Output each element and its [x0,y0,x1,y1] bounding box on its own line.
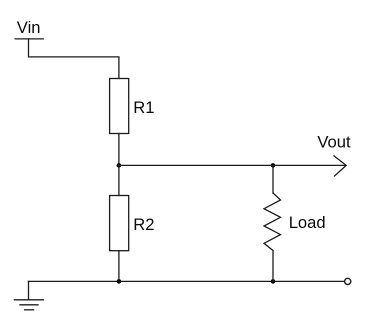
junction Load top [271,163,276,168]
wire Load top lead [272,165,274,193]
svg-text:R2: R2 [133,215,154,234]
wire mid node to Load top [119,164,273,166]
svg-text:R1: R1 [133,98,154,117]
junction R2 bottom [117,279,122,284]
arrow Vout [334,156,346,176]
wire mid node to R2 top [118,165,120,195]
junction Load bottom [271,279,276,284]
terminal open circle [345,278,351,284]
ground [14,300,43,310]
wire R1 bottom to mid node [118,134,120,166]
svg-text:Load: Load [289,213,326,232]
node Vout label [317,133,351,152]
wire ground rail [29,280,345,282]
label Load [289,213,326,232]
terminal Vin [15,38,43,40]
label R1 [133,98,154,117]
wire ground rail to ground symbol [28,281,30,299]
node Vin label [17,18,41,37]
svg-text:Vout: Vout [317,133,351,152]
wire Load bottom lead [272,251,274,282]
wire Vin to R1 top [29,39,119,79]
resistor Load [264,193,281,251]
resistor R2 [110,196,129,251]
wire R2 bottom to ground rail [118,251,120,282]
junction mid node left [117,163,122,168]
wire Load top to Vout arrow [273,164,346,166]
resistor R1 [110,79,129,134]
svg-text:Vin: Vin [17,18,41,37]
label R2 [133,215,154,234]
